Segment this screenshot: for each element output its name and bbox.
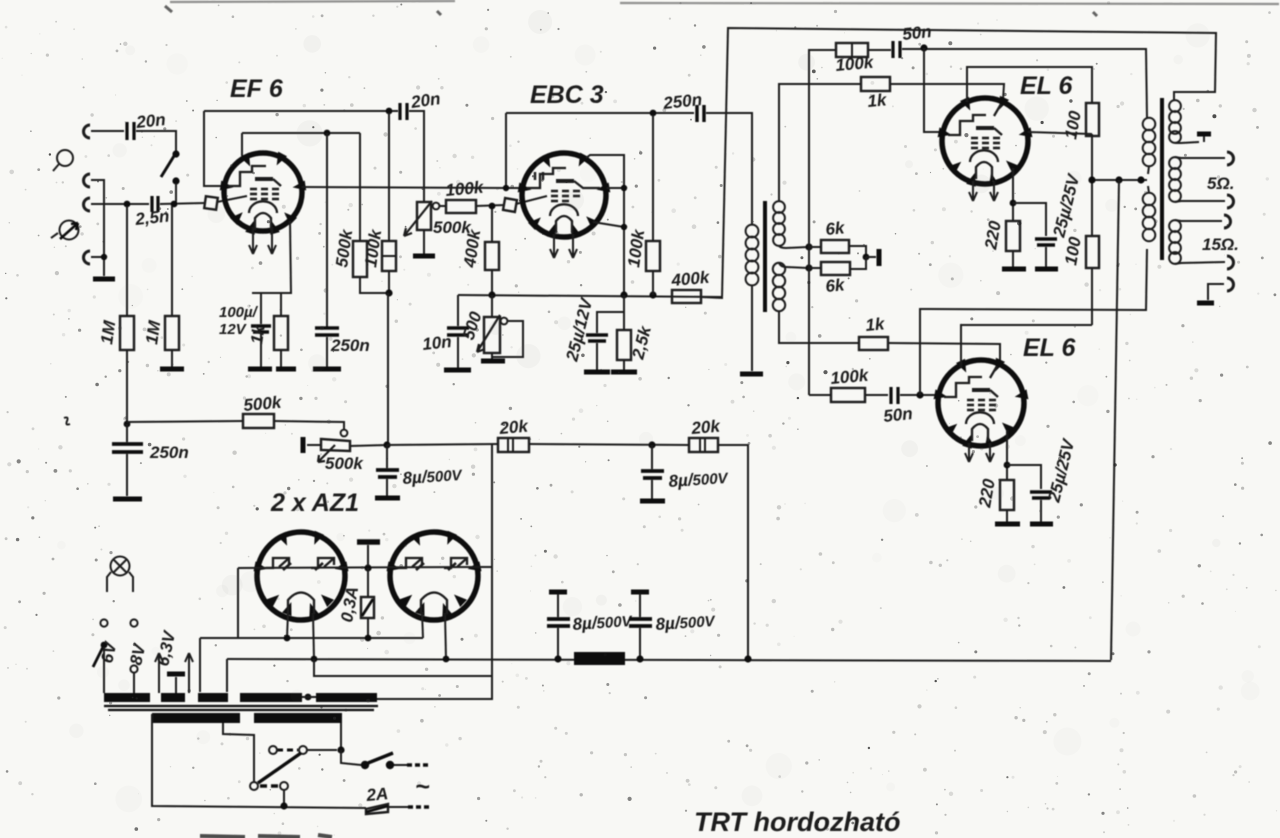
node: B+ primary (1137, 176, 1144, 183)
capacitor 8µ/500V (second) (641, 445, 664, 499)
resistor 100k (plate, vertical, divided) (382, 113, 396, 293)
wire: selector left feed (223, 723, 254, 782)
tube AZ1 first filament bell (288, 593, 314, 615)
resistor 220 (EL6 bottom cathode) (1000, 480, 1014, 522)
svg-text:EF 6: EF 6 (230, 75, 284, 103)
svg-text:5Ω.: 5Ω. (1207, 174, 1234, 193)
resistor 220 (EL6 top cathode) (1006, 221, 1020, 267)
tube AZ1 first pins (254, 531, 349, 617)
speaker terminal 15ohm bottom (1227, 256, 1234, 269)
resistor 6k (upper) (821, 240, 849, 253)
winding bar E (316, 693, 377, 702)
antenna circle symbol (53, 150, 73, 171)
fuse 0,3A (361, 568, 374, 638)
ground: 1M second (160, 367, 184, 372)
wire: EL6 top g3 pin to rail (1028, 132, 1092, 134)
node: bus J4 (101, 254, 107, 260)
input terminal J1 (84, 125, 91, 138)
ground: heater tap (167, 674, 185, 693)
potentiometer 500 (tone) (477, 295, 523, 359)
page bottom edge marks (200, 835, 332, 837)
output transformer core (1160, 98, 1164, 260)
node: H1 fuse (365, 635, 372, 642)
ground: 25µ bottom (1030, 522, 1053, 527)
wire: C-20n to switch (136, 131, 176, 152)
resistor 100k (EBC3 grid) (446, 200, 476, 213)
node: plate line 100k junction (650, 110, 657, 117)
tube AZ1 second filament bell (421, 593, 447, 615)
wire: 5ohm bottom lead (1175, 201, 1225, 202)
tube EL6 top envelope (942, 98, 1028, 184)
node: rail junction 20k (744, 655, 751, 662)
wire: B+ line to primary centre (1092, 179, 1147, 181)
ground: 250n bottom (113, 497, 142, 502)
svg-text:50n: 50n (882, 404, 913, 426)
wire: bar F left drop (152, 714, 366, 808)
capacitor 8µ/500V (first) (376, 445, 399, 496)
winding bar B (161, 693, 185, 702)
tube EBC3 envelope (522, 153, 606, 237)
svg-text:10n: 10n (421, 332, 452, 354)
terminal 6V (93, 619, 108, 693)
ground: 10n (444, 368, 471, 373)
wire: top line plate/pot (y=111) (204, 111, 398, 186)
wire: 15ohm bottom lead (1175, 262, 1225, 264)
capacitor 100µ/12V (cathode) (251, 293, 271, 367)
tube AZ1 second pins (387, 531, 482, 617)
wire: ground terminal lead (1208, 284, 1224, 300)
node: HV centre tap (305, 694, 312, 701)
capacitor 50n (bottom) (891, 387, 898, 404)
ground: 2,5k (611, 370, 637, 375)
ground: 220 bottom (995, 522, 1020, 527)
input terminal J4 (84, 251, 91, 264)
wire: 50n to EL6 bottom anode pin (900, 394, 938, 396)
wire: J2 to ground bus (91, 180, 104, 276)
svg-text:500k: 500k (325, 454, 364, 473)
node: paraphase top (805, 243, 812, 250)
tube AZ1 second envelope (390, 532, 478, 620)
resistor 1k (EL6 top grid stopper) (861, 77, 890, 91)
wire: switch line (341, 750, 361, 765)
svg-text:20n: 20n (134, 110, 166, 132)
wire: EL6 top anode line (902, 49, 1147, 118)
wire: plate line (y=113) (506, 112, 694, 114)
output transformer secondary 2 (5 ohm) coil (1169, 157, 1181, 202)
node: selector feed (337, 746, 344, 753)
squiggle mark left (64, 417, 70, 424)
node: 6k common (863, 254, 870, 261)
node: bus cathode junction (620, 291, 627, 298)
resistor 500k (screen, vertical) (353, 133, 386, 293)
svg-text:500k: 500k (243, 393, 284, 415)
winding bar G (mains) (254, 713, 342, 723)
node: H2 tube1 (311, 656, 318, 663)
ground: 1k cathode (276, 367, 296, 372)
wire: EL6 bottom screen line (961, 325, 1092, 367)
node: 1M-250n junction (124, 421, 131, 428)
wire: EL6 bottom anode line (920, 249, 1147, 395)
svg-text:2 x AZ1: 2 x AZ1 (270, 489, 359, 517)
capacitor 25µ/12V (586, 335, 608, 341)
ground: P1 (413, 254, 435, 259)
ground: input bus (93, 277, 115, 282)
speaker terminal 5ohm top (1227, 152, 1234, 165)
svg-text:100k: 100k (835, 53, 876, 75)
wire: 100k chain to bottom coupling (809, 394, 831, 396)
capacitor 25µ/25V (EL6 top) (1013, 203, 1057, 267)
output transformer primary bottom coil (1143, 193, 1156, 242)
output transformer primary top coil (1143, 118, 1156, 167)
ground: 25µ top (1035, 267, 1058, 272)
ground: tone pot (481, 359, 505, 364)
resistor 1M (first) (120, 206, 134, 424)
tap arrow 6,3V left (155, 653, 163, 693)
svg-text:EL 6: EL 6 (1020, 72, 1073, 100)
resistor 1k (cathode) (274, 293, 288, 367)
node: rail 8µ junction 2 (648, 441, 655, 448)
heater arrow EL6 top right (990, 181, 998, 201)
resistor 6k (lower) (821, 262, 850, 275)
ground: filament centre bar (357, 542, 380, 566)
wire: screen line (y=133) (242, 133, 360, 156)
selector contact row 2 (250, 782, 288, 806)
capacitor 10n (tone) (447, 295, 469, 368)
winding bar D (240, 693, 302, 702)
mains switch (361, 753, 429, 769)
tube EBC3 inner electrodes (527, 168, 600, 233)
tube EL6 top inner electrodes (948, 104, 1002, 179)
wire: global feedback riser (701, 28, 1216, 298)
svg-text:50n: 50n (901, 22, 932, 44)
ground: secondary1 (1197, 134, 1211, 142)
tube EF6 pins (220, 152, 306, 235)
wire: 100k to 50n (868, 49, 891, 51)
winding bar F (mains) (152, 713, 240, 723)
heater arrow EL6 bottom left (965, 443, 973, 462)
wire: bar G right drop (340, 723, 342, 750)
driver transformer secondary top coil (773, 201, 785, 246)
grid cap connector EF6 (204, 196, 247, 210)
svg-text:250n: 250n (149, 443, 189, 462)
potentiometer 500k (volume) (307, 430, 350, 462)
wire: EBC3 anode pins to right vertical (586, 155, 624, 295)
selector contact row 1 (269, 746, 337, 754)
node: EBC3 grid junction (489, 203, 496, 210)
wire: bias rail to 20k (387, 444, 498, 445)
wire: primary bottom to ground (751, 285, 753, 371)
node: rail 8µ junction 1 (383, 441, 390, 448)
capacitor 250n (bottom left) (112, 424, 143, 496)
wire: B+ riser down to supply rail (1111, 180, 1119, 660)
resistor 100k (EL6 top coupling, divided) (836, 43, 868, 57)
wire: EF6 plate to EBC3 (302, 187, 506, 188)
choke (field coil) on rail (574, 652, 625, 665)
capacitor 20n (input) (127, 122, 134, 140)
resistor 1k (EL6 bottom grid stopper) (859, 337, 888, 350)
svg-text:400k: 400k (670, 268, 712, 290)
wire: 1k to EL6 top grid pin (890, 84, 1004, 100)
svg-text:TRT hordozható: TRT hordozható (694, 807, 900, 837)
svg-text:100k: 100k (830, 366, 871, 388)
heater arrow EF6 right (268, 227, 276, 254)
ground: 220 top (1002, 267, 1026, 272)
wire: EBC3 plate frame (506, 113, 523, 188)
wire: 6k upper to common ground (809, 246, 866, 257)
speaker terminal 15ohm top (1224, 215, 1231, 228)
wire: 20n to pot P1 (409, 111, 424, 203)
resistor 2,5k (cathode) (617, 295, 631, 370)
resistor 100 (EL6 bottom screen) (1086, 180, 1099, 325)
node: anode/grid tap bottom (916, 391, 923, 398)
tap arrow right (185, 653, 193, 693)
ground: 250n EF6 (313, 367, 341, 372)
heater arrow EBC3 right (569, 234, 577, 258)
speaker terminal 5ohm bottom (1227, 195, 1234, 208)
tube EL6 top pins (938, 96, 1033, 187)
wire: secondary bottom upper end to 6k node (779, 263, 809, 268)
node: anode/grid tap top (920, 44, 927, 51)
node: B+ riser (1115, 176, 1122, 183)
capacitor 20n (EF6 top) (400, 103, 407, 120)
resistor 400k (grid leak, vertical) (485, 209, 499, 295)
svg-text:2A: 2A (365, 784, 389, 805)
driver transformer secondary bottom coil (773, 263, 785, 311)
tube EL6 bottom envelope (938, 360, 1024, 446)
wire: 25µ to ground (596, 343, 598, 370)
tube AZ1 first envelope (257, 532, 345, 620)
svg-text:~: ~ (415, 773, 430, 801)
node: right vertical top pin (621, 185, 627, 191)
tube EF6 envelope (224, 153, 302, 231)
svg-text:12V: 12V (219, 321, 248, 338)
wire: paraphase vertical 100k chain (809, 50, 836, 395)
svg-text:100µ/: 100µ/ (219, 304, 259, 321)
driver transformer primary coil (746, 225, 759, 286)
resistor 500k (bias feed) (243, 414, 274, 428)
capacitor 8µ/500V (fourth) (629, 592, 652, 659)
wire: 100 to B+ node (1091, 134, 1093, 180)
winding bar A (104, 693, 150, 702)
svg-text:1k: 1k (865, 314, 887, 335)
node: grid junction 1M (124, 201, 131, 208)
svg-text:6k: 6k (825, 275, 847, 296)
svg-text:EL 6: EL 6 (1023, 334, 1076, 362)
tube AZ1 second inner anodes (399, 558, 467, 570)
capacitor 8µ/500V (third) (547, 592, 570, 659)
node: right vertical lower pin (621, 224, 627, 230)
svg-text:EBC 3: EBC 3 (530, 81, 604, 109)
wire: tap to EL6 top anode pin (924, 48, 941, 132)
node: H2 tube2 (443, 656, 450, 663)
grid cap connector EBC3 (503, 196, 547, 212)
svg-text:15Ω.: 15Ω. (1202, 235, 1239, 254)
capacitor 2,5n (152, 196, 158, 212)
svg-text:250n: 250n (330, 336, 370, 355)
wire: 250n to driver transformer primary (706, 113, 752, 225)
wire: 20k to supply rail (718, 445, 748, 659)
resistor 100k (EBC3 plate load, vertical) (646, 115, 660, 295)
ground: 100µ cap (248, 367, 272, 372)
wire: J4 to ground bus (91, 256, 104, 258)
page corner mark (165, 6, 1097, 16)
wire: equator left drop (237, 568, 239, 638)
wire: EF6 cathode down (252, 221, 291, 293)
wire: 15ohm top lead (1175, 220, 1222, 221)
tube EBC3 pins (518, 153, 611, 238)
terminal 8V (130, 619, 137, 693)
wire: 1k to EL6 bottom grid pin (888, 343, 1000, 365)
ground: speaker common (1197, 301, 1214, 306)
wire: junction down to 250n (326, 133, 328, 327)
node: paraphase bottom (805, 264, 812, 271)
driver transformer core (763, 201, 767, 312)
svg-text:2,5n: 2,5n (133, 207, 170, 230)
wire: HV tap link (302, 696, 316, 698)
wire: EL6 top cathode (1012, 168, 1014, 221)
input terminal J3 (84, 198, 91, 211)
ground: 8µ second (640, 499, 665, 504)
pilot lamp (107, 557, 133, 593)
node: rail 8µ third (554, 655, 561, 662)
node: switch/1M2 junction (171, 201, 178, 208)
node: bottom line selector (280, 802, 287, 809)
capacitor 50n (top) (893, 41, 900, 58)
wire: 5ohm top lead (1175, 157, 1225, 158)
wire: 100k to 50n bottom (865, 394, 888, 396)
switch S1 (input) (161, 150, 180, 204)
node: fuse tap (364, 564, 371, 571)
resistor 1M (second) (165, 206, 179, 367)
wire: secondary top to 1k (EL6 top grid) (779, 84, 861, 201)
wire: junction down to bias rail (387, 293, 389, 445)
wire: J3 to C-2,5n (91, 203, 149, 205)
tube AZ1 first inner anodes (266, 558, 334, 570)
fuse 2A (366, 804, 429, 814)
wire: C-2,5n to grid cap EF6 (160, 203, 205, 204)
wire: primary mid (1148, 166, 1149, 193)
ground: volume pot left (301, 437, 306, 453)
transformer core lines (104, 706, 378, 710)
wire: anode line H1 (200, 612, 423, 692)
capacitor 250n (EF6 screen) (315, 328, 339, 335)
wire: 500k to volume pot wiper (274, 421, 344, 429)
capacitor 250n (coupling) (697, 105, 704, 122)
heater arrow EBC3 left (550, 234, 558, 258)
winding bar C (198, 693, 228, 702)
wire: anode line H2 drops (227, 613, 446, 692)
wire: feedback bus (y=295) (458, 295, 722, 297)
resistor 100 (EL6 top screen) (1086, 103, 1099, 136)
wire: filament equator line (238, 567, 492, 568)
resistor 100k (EL6 bottom coupling) (831, 388, 865, 402)
potentiometer P1 500k (EF6) (404, 201, 439, 254)
wire: secondary1 bottom to ground (1175, 142, 1199, 143)
tube EL6 bottom inner electrodes (944, 366, 998, 441)
resistor 400k (feedback, horizontal) (672, 290, 701, 303)
node: top line 100k junction (386, 108, 393, 115)
svg-text:6k: 6k (825, 218, 847, 239)
heater arrow EL6 bottom right (986, 443, 994, 462)
node: 500k/100k bottom junction (385, 289, 392, 296)
svg-text:1M: 1M (97, 319, 119, 346)
wire: P1 wiper to 100k (440, 205, 446, 207)
wire: pot to bias rail (350, 445, 387, 446)
wire: 250n to ground (326, 337, 328, 367)
svg-text:20k: 20k (690, 416, 722, 438)
ground: driver primary (740, 372, 763, 377)
ground: 25µ/12V (584, 370, 610, 375)
input terminal J2 (84, 174, 91, 187)
node: bus 400k junction (488, 291, 495, 298)
selector strap (258, 753, 301, 783)
resistor 20k (first, divided) (498, 438, 529, 452)
node: screen line 250n junction (324, 130, 331, 137)
node: plate frame junction (503, 185, 509, 191)
output transformer secondary 1 (feedback) coil (1169, 100, 1181, 143)
wire: secondary top lower end to 6k node (779, 246, 809, 248)
capacitor 25µ/25V (EL6 bottom) (1007, 465, 1052, 522)
wire: secondary bottom to 1k (EL6 bottom) (779, 311, 859, 343)
wire: junction to 500k (127, 421, 243, 422)
svg-text:1k: 1k (867, 90, 889, 111)
wire: 20k to 20k (529, 444, 689, 445)
page top edge line (170, 1, 1279, 4)
tube EF6 inner electrodes (228, 166, 281, 230)
node: bus 100k junction (649, 291, 656, 298)
ground: 8µ first (375, 496, 400, 501)
svg-text:20k: 20k (498, 416, 530, 438)
wire: main supply rail (227, 659, 1111, 661)
svg-text:1M: 1M (142, 319, 164, 346)
tube EL6 bottom pins (934, 358, 1029, 449)
heater arrow EL6 top left (969, 181, 977, 201)
wire: cathode branch to 25µ (597, 312, 624, 333)
heater arrow EF6 left (249, 227, 257, 254)
wire: EL6 top screen line (967, 67, 1092, 103)
wire: bleeder tap line (314, 659, 492, 676)
node: rail 8µ fourth (636, 655, 643, 662)
pickup symbol (51, 221, 79, 240)
output transformer secondary 3 (15 ohm) coil (1169, 220, 1181, 264)
ground: 6k common (866, 249, 879, 266)
svg-text:100k: 100k (445, 178, 486, 200)
wire: bleeder riser (377, 445, 492, 699)
speaker terminal ground (1227, 278, 1234, 291)
wire: J1 to C-20n (91, 130, 124, 132)
wire: 100k to grid cap EBC3 (476, 205, 505, 206)
resistor 20k (second, divided) (689, 438, 718, 452)
wire: 6k lower to common (809, 257, 866, 269)
wire: EL6 bottom cathode (1006, 430, 1008, 480)
node: B+ screen top (1088, 176, 1095, 183)
node: H1 tube1 (284, 635, 291, 642)
node: cathode top (1010, 200, 1017, 207)
node: cathode bottom (1004, 462, 1011, 469)
